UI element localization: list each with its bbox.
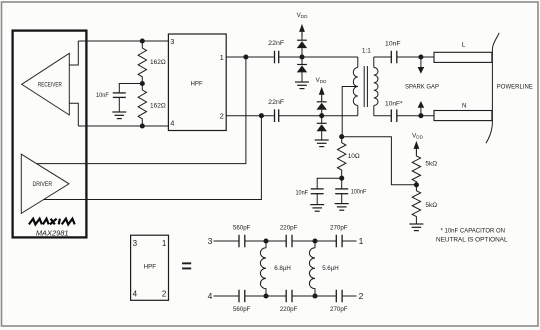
resistor R 162ohm upper (138, 41, 166, 84)
svg-text:SPARK GAP: SPARK GAP (405, 84, 439, 91)
resistor R 5kohm lower (412, 185, 437, 224)
node on pin3 line (140, 38, 145, 43)
wire D2 to ground (301, 72, 303, 82)
svg-text:5kΩ: 5kΩ (425, 202, 437, 209)
svg-text:* 10nF CAPACITOR ON: * 10nF CAPACITOR ON (441, 228, 506, 235)
wire cap to N rect (397, 115, 434, 117)
wire D4 to ground (321, 131, 323, 140)
L line block (434, 41, 492, 62)
svg-text:220pF: 220pF (280, 225, 298, 232)
svg-text:L: L (462, 41, 466, 48)
capacitor C 560pF bottom (233, 290, 251, 313)
diode D1 to VDD (297, 40, 307, 48)
svg-text:22nF: 22nF (268, 99, 284, 106)
capacitor C 220pF bottom (280, 290, 298, 313)
wire HPF pin1 to cap (226, 56, 274, 58)
wire ladder pin1 (342, 240, 356, 242)
svg-text:270pF: 270pF (330, 225, 348, 232)
resistor R 10ohm (338, 137, 360, 179)
wire cap to transformer bottom (279, 115, 358, 117)
svg-text:10Ω: 10Ω (348, 153, 360, 160)
svg-text:162Ω: 162Ω (150, 59, 166, 66)
inductor L 5.6uH (309, 241, 339, 296)
ground clamp1 (295, 82, 309, 89)
note text (436, 228, 508, 244)
capacitor C 10nF bias (296, 178, 342, 204)
equals sign (182, 262, 191, 269)
svg-text:VDD: VDD (297, 12, 308, 19)
wire D1 to node (301, 48, 303, 64)
power arrow VDD divider (414, 141, 420, 155)
wire driver output bottom (44, 116, 262, 200)
svg-text:1:1: 1:1 (362, 47, 371, 54)
ground at receiver bias cap (112, 112, 126, 119)
svg-text:10nF*: 10nF* (385, 100, 403, 107)
svg-text:N: N (462, 103, 467, 110)
transformer T1 secondary (374, 57, 378, 116)
op-amp DRIVER amplifier (21, 154, 69, 213)
svg-text:2: 2 (162, 289, 167, 298)
ground at 10nF bias (310, 205, 324, 212)
inductor L 6.8uH (260, 241, 291, 296)
node ladder bottom right (312, 293, 317, 298)
node driver feedback top (243, 54, 248, 59)
svg-text:220pF: 220pF (280, 306, 298, 313)
resistor R 5kohm upper (412, 155, 437, 185)
diode D3 to VDD (317, 102, 327, 110)
power arrow VDD clamp2 (319, 87, 325, 101)
ground clamp2 (315, 140, 329, 147)
svg-text:MAX2981: MAX2981 (36, 228, 69, 237)
transformer center tap wire (342, 87, 358, 137)
N line block (434, 103, 492, 121)
node driver feedback bottom (259, 113, 264, 118)
svg-text:560pF: 560pF (233, 306, 251, 313)
capacitor C 220pF top (280, 225, 298, 248)
wire ladder pin3 (214, 240, 240, 242)
spark gap arrow up (418, 101, 425, 116)
svg-text:2: 2 (220, 112, 224, 121)
svg-text:POWERLINE: POWERLINE (497, 83, 534, 90)
wire receiver negative input stub (69, 103, 78, 126)
wire cap to transformer top (279, 56, 358, 58)
svg-text:3: 3 (170, 37, 174, 46)
ground at divider (409, 224, 423, 231)
svg-text:3: 3 (133, 239, 138, 248)
wire receiver positive input stub (69, 41, 78, 65)
svg-text:RECEIVER: RECEIVER (38, 82, 62, 89)
HPF equivalent detail box (131, 235, 169, 300)
node center tap bias (339, 134, 344, 139)
wire D3 to node (321, 110, 323, 124)
wire ladder pin4 (214, 295, 240, 297)
svg-text:5kΩ: 5kΩ (425, 161, 437, 168)
spark gap arrow down (418, 57, 425, 74)
node spark gap top (418, 54, 423, 59)
MAXIM logo (29, 219, 75, 225)
wire HPF pin2 to cap (226, 115, 274, 117)
svg-text:22nF: 22nF (268, 40, 284, 47)
node ladder bottom left (263, 293, 268, 298)
svg-text:1: 1 (220, 53, 224, 62)
node ladder top right (312, 238, 317, 243)
capacitor C 560pF top (233, 225, 251, 248)
svg-text:100nF: 100nF (351, 189, 367, 196)
svg-text:DRIVER: DRIVER (33, 181, 53, 188)
svg-text:2: 2 (359, 291, 364, 301)
wire arrow to D3 (321, 100, 323, 101)
svg-text:HPF: HPF (191, 81, 203, 88)
resistor R 162ohm lower (138, 84, 166, 127)
wire to bias capacitor (119, 84, 142, 93)
node between 5kohm resistors (414, 182, 419, 187)
svg-text:10nF: 10nF (296, 189, 309, 196)
capacitor C 10nF* line N (385, 100, 403, 122)
node spark gap bottom (418, 113, 423, 118)
wire center tap to divider (342, 137, 417, 185)
svg-text:3: 3 (208, 236, 213, 246)
capacitor C 10nF line L (385, 40, 401, 63)
svg-text:560pF: 560pF (233, 225, 251, 232)
op-amp RECEIVER amplifier (22, 53, 70, 115)
capacitor 10nF at receiver bias (96, 92, 126, 112)
svg-text:NEUTRAL IS OPTIONAL: NEUTRAL IS OPTIONAL (436, 237, 508, 244)
wire driver output top (36, 57, 246, 164)
diode D4 to ground (317, 123, 327, 131)
capacitor C 22nF bottom (268, 99, 284, 122)
svg-text:VDD: VDD (412, 132, 423, 139)
node clamp1 (299, 54, 304, 59)
svg-text:162Ω: 162Ω (150, 102, 166, 109)
svg-text:HPF: HPF (144, 264, 156, 271)
power arrow VDD clamp1 (299, 24, 305, 38)
wire transformer to cap L (374, 56, 392, 58)
svg-text:6.8µH: 6.8µH (274, 265, 291, 272)
diode D2 to ground (297, 65, 307, 73)
svg-text:10nF: 10nF (385, 40, 401, 47)
node on pin4 line (140, 123, 145, 128)
svg-text:4: 4 (133, 289, 138, 298)
wire 220pF to 270pF bottom (292, 295, 336, 297)
HPF block U2 (168, 34, 226, 131)
wire 560pF to 220pF bottom (245, 295, 286, 297)
svg-text:1: 1 (162, 239, 167, 248)
svg-text:4: 4 (208, 291, 213, 301)
wire cap to L rect (397, 56, 434, 58)
capacitor C 270pF top (330, 225, 348, 248)
node between 162ohm resistors (140, 81, 145, 86)
transformer T1 primary (353, 57, 358, 116)
transformer core (364, 66, 367, 107)
wire pin4 line (78, 125, 168, 127)
ground at 100nF (335, 204, 349, 211)
svg-text:10nF: 10nF (96, 92, 109, 99)
svg-text:4: 4 (170, 119, 174, 128)
svg-text:270pF: 270pF (330, 306, 348, 313)
wire transformer to cap N (374, 115, 392, 117)
IC U1 MAX2981 box (13, 31, 87, 238)
wire ladder pin2 (342, 295, 356, 297)
node below 10ohm (339, 176, 344, 181)
wire 560pF to 220pF top (245, 240, 286, 242)
svg-text:1: 1 (359, 236, 364, 246)
wire 220pF to 270pF top (292, 240, 336, 242)
capacitor C 270pF bottom (330, 290, 348, 313)
wire pin3 line (78, 40, 168, 42)
svg-text:VDD: VDD (316, 77, 327, 84)
node clamp2 (319, 113, 324, 118)
wire arrow to D1 (301, 38, 303, 41)
powerline curve (486, 33, 499, 143)
node ladder top left (263, 238, 268, 243)
capacitor C 22nF top (268, 40, 284, 63)
capacitor C 100nF (335, 178, 366, 203)
svg-text:5.6µH: 5.6µH (322, 265, 339, 272)
